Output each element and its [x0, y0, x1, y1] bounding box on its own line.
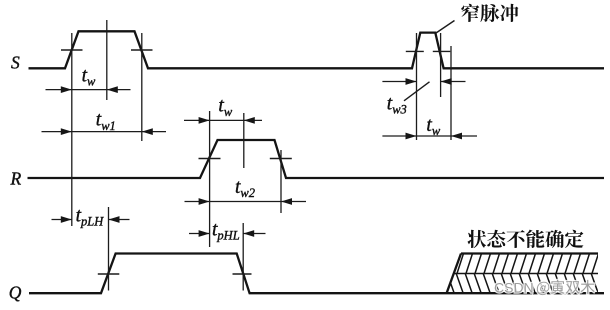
svg-text:R: R: [10, 168, 22, 188]
svg-text:CSDN: CSDN: [494, 280, 534, 296]
svg-text:Q: Q: [9, 282, 22, 302]
svg-text:S: S: [11, 52, 20, 72]
